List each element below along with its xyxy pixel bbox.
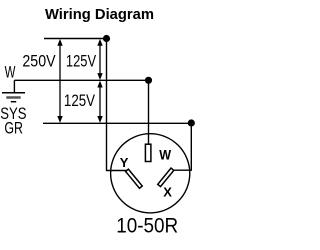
svg-text:X: X [163,185,172,200]
svg-text:10-50R: 10-50R [116,214,178,238]
svg-text:125V: 125V [64,91,95,110]
node: junction dot on bottom line [188,119,195,126]
svg-text:250V: 250V [22,51,55,70]
slot W (neutral blade) [145,144,151,161]
dimension arrow: upper 125V double-headed [97,39,102,80]
wire: stub from middle line down to ground [13,80,15,92]
wire: from bottom-line junction down and left to X slot [172,125,191,170]
svg-text:W: W [159,147,171,163]
slot Y (hot blade, angled) [126,169,143,188]
svg-text:Y: Y [120,155,129,170]
svg-text:W: W [5,63,16,82]
ground symbol [2,93,25,102]
wire: bottom horizontal line (hot 2) [43,122,191,124]
slot X (hot blade, angled) [158,168,174,187]
wire: from middle-line junction down to W slot [148,82,150,144]
dimension arrow: lower 125V double-headed [97,81,102,123]
svg-text:125V: 125V [66,52,96,71]
receptacle outline circle [111,134,190,213]
node: junction dot on top line [103,35,110,42]
dimension arrow: 250V double-headed [57,39,62,123]
wire: top horizontal line (hot 1) [44,38,107,40]
wire: from top-line junction down and right to Y slot [107,40,128,171]
node: junction dot on middle line [145,77,152,84]
svg-text:GR: GR [4,119,23,138]
wire: middle horizontal line (neutral W) [14,79,148,81]
svg-text:Wiring Diagram: Wiring Diagram [45,7,154,23]
